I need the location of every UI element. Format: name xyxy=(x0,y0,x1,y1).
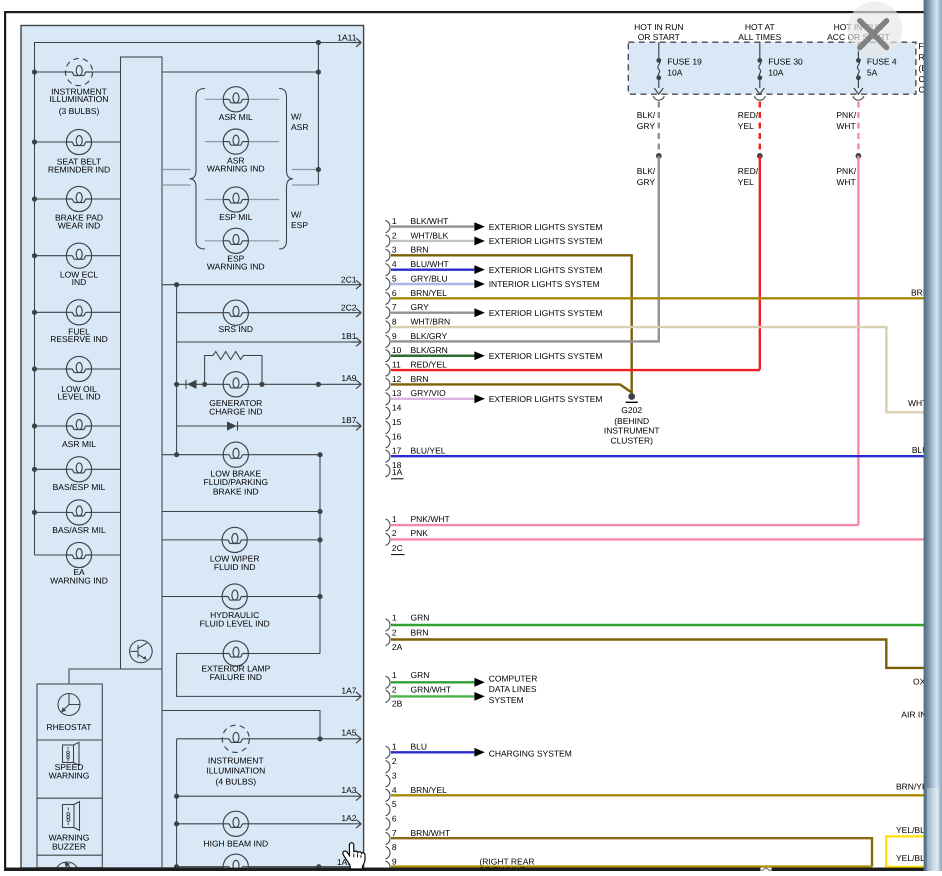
svg-text:7: 7 xyxy=(392,828,397,838)
svg-text:OR START: OR START xyxy=(638,32,680,42)
pin 3 connector 1A xyxy=(386,249,391,261)
svg-text:WARNING IND: WARNING IND xyxy=(50,576,108,586)
pin 16 connector 1A xyxy=(386,436,391,448)
svg-text:RESERVE IND: RESERVE IND xyxy=(50,334,107,344)
svg-text:GRY: GRY xyxy=(637,177,656,187)
svg-text:RED/YEL: RED/YEL xyxy=(411,360,448,370)
node bottom row right xyxy=(316,864,321,869)
svg-text:BLK/: BLK/ xyxy=(637,110,656,120)
svg-text:3: 3 xyxy=(392,770,397,780)
svg-text:WARNING IND: WARNING IND xyxy=(207,262,265,272)
wire column right edge extension to bottom xyxy=(161,669,163,868)
wire row ea warning ind xyxy=(35,554,121,556)
pin 2 connector 2B xyxy=(386,690,391,702)
svg-text:2: 2 xyxy=(392,628,397,638)
arrow computer data lines pin1 xyxy=(474,678,485,687)
pin 12 connector 1A xyxy=(386,378,391,390)
svg-text:8: 8 xyxy=(392,316,397,326)
svg-text:BLU: BLU xyxy=(411,742,428,752)
svg-text:FLUID IND: FLUID IND xyxy=(214,562,256,572)
svg-text:YEL: YEL xyxy=(738,121,754,131)
svg-text:1A9: 1A9 xyxy=(341,373,356,383)
svg-text:RED/: RED/ xyxy=(738,166,759,176)
svg-text:BAS/ASR MIL: BAS/ASR MIL xyxy=(52,525,106,535)
FUSE 4 xyxy=(853,42,864,100)
svg-text:GRN/WHT: GRN/WHT xyxy=(411,684,452,694)
svg-text:7: 7 xyxy=(392,302,397,312)
svg-text:1: 1 xyxy=(392,670,397,680)
lamp asr mil ind xyxy=(66,413,91,438)
node 2C1 junction xyxy=(174,282,179,287)
svg-text:ASR MIL: ASR MIL xyxy=(62,439,96,449)
node junction left bus y=255.7 xyxy=(32,253,37,258)
svg-text:1: 1 xyxy=(392,613,397,623)
cursor hand pointer xyxy=(343,843,365,869)
svg-text:PNK: PNK xyxy=(411,528,429,538)
lamp seat belt reminder ind xyxy=(66,129,91,154)
svg-text:FLUID LEVEL IND: FLUID LEVEL IND xyxy=(200,619,270,629)
svg-text:YEL/BL: YEL/BL xyxy=(896,825,925,835)
lamp brake pad wear ind xyxy=(66,186,91,211)
node low brake right xyxy=(317,452,322,457)
svg-text:RHEOSTAT: RHEOSTAT xyxy=(46,722,91,732)
svg-text:2: 2 xyxy=(392,684,397,694)
diode D1 (points left) xyxy=(187,380,197,389)
svg-text:13: 13 xyxy=(392,388,402,398)
svg-text:6: 6 xyxy=(392,288,397,298)
wire column to rheostat xyxy=(69,669,121,684)
svg-text:HIGH BEAM IND: HIGH BEAM IND xyxy=(203,838,268,848)
pin 15 connector 1A xyxy=(386,421,391,433)
lamp hydraulic fluid level ind xyxy=(222,584,247,609)
svg-text:ESP: ESP xyxy=(291,220,308,230)
svg-text:GRN: GRN xyxy=(411,670,430,680)
wire row bas/asr mil ind xyxy=(35,511,121,513)
pin 2 connector 2A xyxy=(386,633,391,645)
wire 2C pin2 pnk to edge xyxy=(391,538,924,540)
svg-text:CLUSTER): CLUSTER) xyxy=(610,436,653,446)
diode D2 (points right) xyxy=(227,421,237,430)
wire row low ecl ind xyxy=(35,255,121,257)
node junction left bus y=426 xyxy=(32,423,37,428)
svg-text:ILLUMINATION: ILLUMINATION xyxy=(206,765,265,775)
node resistor right xyxy=(259,382,264,387)
svg-text:WHT/BRN: WHT/BRN xyxy=(411,316,451,326)
brace right xyxy=(279,89,293,250)
wire red/yel riser solid xyxy=(759,156,761,370)
node high beam junction xyxy=(174,821,179,826)
wire row asr mil ind xyxy=(35,425,121,427)
svg-text:GRY: GRY xyxy=(637,121,656,131)
wire 2B pin1 grn xyxy=(391,681,474,683)
node resistor left xyxy=(202,382,207,387)
svg-text:INSTRUMENT: INSTRUMENT xyxy=(604,425,660,435)
svg-text:BRAKE IND: BRAKE IND xyxy=(213,487,259,497)
svg-text:3: 3 xyxy=(392,245,397,255)
pin 2 bottom connector xyxy=(386,760,391,772)
rheostat-buzzer box xyxy=(37,684,102,868)
wire bottom pin4 brn/yel to edge xyxy=(391,794,924,796)
svg-text:1: 1 xyxy=(392,514,397,524)
node junction left bus y=469.3 xyxy=(32,467,37,472)
pin 3 bottom connector xyxy=(386,775,391,787)
svg-text:5A: 5A xyxy=(867,68,878,78)
pin 1 bottom connector xyxy=(386,746,391,758)
wire row 1A3 xyxy=(177,795,352,797)
wire row exterior lamp failure ind xyxy=(177,654,352,697)
wire row low oil level ind xyxy=(35,368,121,370)
svg-text:(4 BULBS): (4 BULBS) xyxy=(215,777,256,787)
svg-text:2: 2 xyxy=(392,230,397,240)
wire red/yel fuse drop dashed xyxy=(759,102,761,156)
lamp high beam ind xyxy=(223,811,248,836)
svg-text:ALL TIMES: ALL TIMES xyxy=(738,32,781,42)
node group riser junction xyxy=(316,167,321,172)
svg-text:ESP MIL: ESP MIL xyxy=(219,212,253,222)
svg-text:2C1: 2C1 xyxy=(341,274,357,284)
svg-text:YEL/BL: YEL/BL xyxy=(896,853,925,863)
wire row generator charge 1A9 xyxy=(177,383,352,385)
svg-text:EXTERIOR LIGHTS SYSTEM: EXTERIOR LIGHTS SYSTEM xyxy=(489,394,603,404)
svg-text:ASR: ASR xyxy=(291,122,308,132)
wire bottom pin9 yel/blu xyxy=(391,865,872,867)
pin 17 connector 1A xyxy=(386,450,391,462)
pin 14 connector 1A xyxy=(386,407,391,419)
node red/yel junction xyxy=(757,153,763,159)
svg-text:WHT: WHT xyxy=(836,177,855,187)
svg-text:16: 16 xyxy=(392,431,402,441)
pin 13 connector 1A xyxy=(386,393,391,405)
arrow exterior lights system pin2 xyxy=(474,237,485,246)
bus bar column xyxy=(121,57,163,669)
pin 4 bottom connector xyxy=(386,789,391,801)
pin 1 connector 2A xyxy=(386,619,391,631)
wire 2A pin1 grn to edge xyxy=(391,624,924,626)
lamp asr mil xyxy=(223,87,248,112)
node blk/gry junction xyxy=(656,153,662,159)
svg-text:1A: 1A xyxy=(392,467,403,477)
svg-text:HOT AT: HOT AT xyxy=(745,22,775,32)
node junction left bus y=312.3 xyxy=(32,310,37,315)
svg-text:BAS/ESP MIL: BAS/ESP MIL xyxy=(53,482,106,492)
arrow exterior lights system pin7 xyxy=(474,308,485,317)
wire row asr mil xyxy=(205,98,279,100)
svg-text:4: 4 xyxy=(392,785,397,795)
svg-text:COMPUTER: COMPUTER xyxy=(489,674,538,684)
arrow exterior lights system pin4 xyxy=(474,265,485,274)
lamp exterior lamp failure ind xyxy=(223,641,248,666)
node row 511.5 xyxy=(317,509,322,514)
wire pin2 wht/blk xyxy=(391,240,474,242)
wire pin4 blu/wht xyxy=(391,268,474,270)
svg-text:5: 5 xyxy=(392,799,397,809)
svg-text:(3 BULBS): (3 BULBS) xyxy=(59,106,100,116)
pin 8 bottom connector xyxy=(386,847,391,859)
gauge (cut) xyxy=(55,862,79,876)
svg-text:FAILURE IND: FAILURE IND xyxy=(210,672,262,682)
svg-text:REMINDER IND: REMINDER IND xyxy=(48,164,110,174)
lamp fuel reserve ind xyxy=(66,300,91,325)
svg-text:17: 17 xyxy=(392,446,402,456)
wire row hydraulic fluid level ind xyxy=(162,596,320,598)
wire pin8 wht/brn to edge xyxy=(391,327,924,412)
svg-text:BRN: BRN xyxy=(411,374,429,384)
wire row low wiper fluid ind xyxy=(162,539,320,541)
svg-text:9: 9 xyxy=(392,857,397,867)
wire row bas/esp mil ind xyxy=(35,468,121,470)
svg-text:1A3: 1A3 xyxy=(341,785,356,795)
lamp asr warning ind xyxy=(223,129,248,154)
svg-text:2A: 2A xyxy=(392,642,403,652)
transistor Q1 (photo) xyxy=(130,640,153,663)
node junction left bus y=72 xyxy=(32,69,37,74)
svg-text:WHT: WHT xyxy=(836,121,855,131)
svg-text:BUZZER: BUZZER xyxy=(52,842,86,852)
pin 1 connector 1A xyxy=(386,220,391,232)
node junction left bus y=369 xyxy=(32,366,37,371)
svg-text:FUSE 30: FUSE 30 xyxy=(768,57,803,67)
lamp bas/esp mil ind xyxy=(66,457,91,482)
wire row instrument illumination (3 bulbs) xyxy=(35,71,121,73)
wire pin12 brn to G202 xyxy=(391,384,632,392)
node junction left bus y=142 xyxy=(32,139,37,144)
svg-text:GRN: GRN xyxy=(411,613,430,623)
svg-text:1: 1 xyxy=(392,216,397,226)
svg-text:GRY/VIO: GRY/VIO xyxy=(411,388,447,398)
node pnk/wht junction xyxy=(856,153,862,159)
wire row plain 511.5 xyxy=(162,511,320,513)
svg-text:ILLUMINATION: ILLUMINATION xyxy=(50,94,109,104)
wire pin10 blk/grn xyxy=(391,355,474,357)
wire bottom pin1 blu xyxy=(391,751,474,753)
svg-text:SYSTEM: SYSTEM xyxy=(489,695,524,705)
svg-text:2C2: 2C2 xyxy=(341,302,357,312)
svg-text:BLU/WHT: BLU/WHT xyxy=(411,259,449,269)
wire pin6 brn/yel to edge xyxy=(391,297,924,299)
svg-text:DATA LINES: DATA LINES xyxy=(489,684,537,694)
pin 4 connector 1A xyxy=(386,263,391,275)
svg-text:ASR MIL: ASR MIL xyxy=(219,112,253,122)
svg-text:EXTERIOR LIGHTS SYSTEM: EXTERIOR LIGHTS SYSTEM xyxy=(489,308,603,318)
wire lower left riser 176.6 xyxy=(176,739,178,867)
arrow exterior lights system pin1 xyxy=(474,222,485,231)
svg-text:FUSE 4: FUSE 4 xyxy=(867,57,897,67)
wire 2B pin2 grn/wht xyxy=(391,695,474,697)
wire stub group out upper right xyxy=(292,169,318,171)
node hydraulic right xyxy=(317,594,322,599)
pin 6 connector 1A xyxy=(386,292,391,304)
svg-text:2: 2 xyxy=(392,756,397,766)
node junction left bus y=512.4 xyxy=(32,510,37,515)
connector symbol partial at bottom border xyxy=(761,868,772,871)
svg-text:HOT IN RUN: HOT IN RUN xyxy=(634,22,683,32)
svg-text:SRS IND: SRS IND xyxy=(219,324,253,334)
svg-text:12: 12 xyxy=(392,374,402,384)
svg-text:BLU/YEL: BLU/YEL xyxy=(411,446,446,456)
svg-text:EXTERIOR LIGHTS SYSTEM: EXTERIOR LIGHTS SYSTEM xyxy=(489,351,603,361)
wire 2A pin2 brn to edge xyxy=(391,640,924,668)
wire row srs ind xyxy=(177,312,352,314)
wire stub group feed lower left xyxy=(162,184,191,186)
svg-text:1B1: 1B1 xyxy=(341,331,356,341)
wire pin17 blu/yel to edge xyxy=(391,455,924,457)
brace left xyxy=(190,89,206,250)
buzzer warning buzzer xyxy=(63,802,80,831)
svg-text:CHARGING SYSTEM: CHARGING SYSTEM xyxy=(489,749,572,759)
svg-text:W/: W/ xyxy=(291,209,302,219)
wire pnk/wht fuse drop dashed xyxy=(857,102,859,156)
svg-text:FUSE 19: FUSE 19 xyxy=(667,57,702,67)
svg-text:BRN/YEL: BRN/YEL xyxy=(411,785,448,795)
pin 11 connector 1A xyxy=(386,364,391,376)
wire pin11 red/yel to fuse 30 xyxy=(391,369,760,371)
wire top bus to 1A11 xyxy=(35,43,352,73)
pin 10 connector 1A xyxy=(386,350,391,362)
svg-text:CHARGE IND: CHARGE IND xyxy=(209,406,262,416)
svg-text:10A: 10A xyxy=(768,68,783,78)
svg-text:BRN: BRN xyxy=(411,245,429,255)
wire row brake pad wear ind xyxy=(35,198,121,200)
wire right riser 320 xyxy=(319,455,321,654)
wire blk/gry riser solid xyxy=(658,156,660,341)
wire row asr warning ind xyxy=(205,141,279,143)
lamp low brake fluid/parking brake ind xyxy=(223,442,248,467)
svg-text:AIR IN: AIR IN xyxy=(901,709,926,719)
pin 7 bottom connector xyxy=(386,832,391,844)
pin 1 connector 2C xyxy=(386,519,391,531)
svg-text:WARNING: WARNING xyxy=(49,770,90,780)
svg-text:5: 5 xyxy=(392,273,397,283)
node generator row left xyxy=(174,382,179,387)
svg-text:1A2: 1A2 xyxy=(341,813,356,823)
lamp srs ind xyxy=(223,300,248,325)
lamp generator charge ind xyxy=(223,372,248,397)
lamp bottom indicator (cut) xyxy=(223,854,248,876)
node low brake left xyxy=(174,452,179,457)
wire left bus xyxy=(34,72,36,555)
pin 9 bottom connector xyxy=(386,861,391,873)
node junction left bus y=199 xyxy=(32,196,37,201)
FUSE 19 xyxy=(653,42,664,100)
pin 5 connector 1A xyxy=(386,278,391,290)
wire blk/gry fuse drop dashed xyxy=(658,102,660,156)
svg-text:BRN/WHT: BRN/WHT xyxy=(411,828,451,838)
pin 1 connector 2B xyxy=(386,676,391,688)
rheostat R2 xyxy=(58,694,80,716)
svg-text:4: 4 xyxy=(392,259,397,269)
svg-text:FLUID/PARKING: FLUID/PARKING xyxy=(204,477,269,487)
lamp esp mil xyxy=(223,187,248,212)
wire row esp mil xyxy=(205,199,279,201)
wire pin1 blk/wht xyxy=(391,225,474,227)
wire pin7 gry xyxy=(391,312,474,314)
wire stub group feed upper left xyxy=(162,169,191,171)
wire row 1B1 xyxy=(177,341,352,343)
svg-text:6: 6 xyxy=(392,813,397,823)
node 1A3 junction xyxy=(174,794,179,799)
svg-text:2B: 2B xyxy=(392,698,403,708)
svg-text:BLK/GRN: BLK/GRN xyxy=(411,345,448,355)
node low wiper right xyxy=(317,537,322,542)
pin 7 connector 1A xyxy=(386,307,391,319)
lamp instrument illumination (3 bulbs) xyxy=(65,58,92,85)
wire row 1B7 xyxy=(177,425,352,427)
svg-text:14: 14 xyxy=(392,403,402,413)
pin 9 connector 1A xyxy=(386,335,391,347)
svg-text:10A: 10A xyxy=(667,68,682,78)
svg-text:BLK/WHT: BLK/WHT xyxy=(411,216,449,226)
node bottom row left xyxy=(174,864,179,869)
node riser top xyxy=(316,40,321,45)
arrow exterior lights system pin13 xyxy=(474,394,485,403)
lamp esp warning ind xyxy=(223,228,248,253)
buzzer speed warning xyxy=(63,742,80,765)
lamp low ecl ind xyxy=(66,243,91,268)
svg-text:BRN/YEL: BRN/YEL xyxy=(411,288,448,298)
svg-text:IND: IND xyxy=(72,277,87,287)
svg-text:INSTRUMENT: INSTRUMENT xyxy=(208,756,264,766)
pin 18 connector 1A xyxy=(386,464,391,476)
resistor R1 bypass loop xyxy=(205,352,262,385)
svg-text:1A11: 1A11 xyxy=(337,33,356,43)
svg-text:EXTERIOR LIGHTS SYSTEM: EXTERIOR LIGHTS SYSTEM xyxy=(489,222,603,232)
svg-text:15: 15 xyxy=(392,417,402,427)
lamp low wiper fluid ind xyxy=(222,527,247,552)
svg-text:WHT/BLK: WHT/BLK xyxy=(411,230,449,240)
node riser illumination row xyxy=(316,69,321,74)
wire stub group out lower right xyxy=(292,184,318,186)
svg-text:9: 9 xyxy=(392,331,397,341)
wire pin13 gry/vio xyxy=(391,398,474,400)
svg-text:INTERIOR LIGHTS SYSTEM: INTERIOR LIGHTS SYSTEM xyxy=(489,279,600,289)
wire 1A11 riser xyxy=(317,43,319,186)
ground G202 xyxy=(628,393,635,400)
wire pin5 gry/blu xyxy=(391,283,474,285)
lamp instrument illumination (4 bulbs) xyxy=(222,725,249,752)
close button X xyxy=(847,2,902,57)
svg-text:2: 2 xyxy=(392,528,397,538)
svg-text:EXTERIOR LIGHTS SYSTEM: EXTERIOR LIGHTS SYSTEM xyxy=(489,265,603,275)
svg-text:WARNING IND: WARNING IND xyxy=(207,164,265,174)
svg-text:8: 8 xyxy=(392,842,397,852)
wire row bottom indicator (cut) xyxy=(177,866,352,868)
svg-text:PNK/WHT: PNK/WHT xyxy=(411,514,450,524)
arrow computer data lines pin2 xyxy=(474,692,485,701)
arrow interior lights system pin5 xyxy=(474,280,485,289)
wire row esp warning ind xyxy=(205,240,279,242)
lamp ea warning ind xyxy=(66,542,91,567)
wire bottom pin7 brn/wht xyxy=(391,838,872,866)
svg-text:2C: 2C xyxy=(392,543,403,553)
node 1A9 riser junction xyxy=(316,382,321,387)
pin 8 connector 1A xyxy=(386,321,391,333)
svg-text:GRY/BLU: GRY/BLU xyxy=(411,273,448,283)
wire row fuel reserve ind xyxy=(35,311,121,313)
wire row instrument illumination (4 bulbs) 1A5 xyxy=(177,738,352,740)
svg-text:BLK/GRY: BLK/GRY xyxy=(411,331,448,341)
node 1A5 junction xyxy=(317,736,322,741)
wire illumination row to 1A11 riser xyxy=(162,71,318,73)
svg-text:PNK/: PNK/ xyxy=(836,166,856,176)
highlight box yel/blu xyxy=(886,836,926,866)
wire pin3 brn to G202 xyxy=(391,255,632,394)
wire 2C pin1 pnk/wht to fuse 4 xyxy=(391,524,858,526)
arrow exterior lights system pin10 xyxy=(474,351,485,360)
wire pin9 blk/gry to fuse 19 xyxy=(391,340,659,343)
pin 5 bottom connector xyxy=(386,804,391,816)
svg-text:10: 10 xyxy=(392,345,402,355)
lamp bas/asr mil ind xyxy=(66,500,91,525)
